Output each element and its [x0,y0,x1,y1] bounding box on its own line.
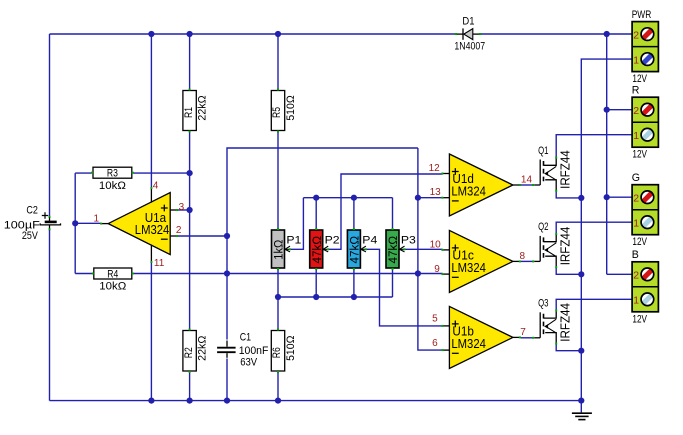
wire pin4 supply column [150,34,152,189]
svg-text:12V: 12V [632,313,647,325]
wire U1d out to Q1 gate [521,184,534,186]
svg-text:IRFZ44: IRFZ44 [558,303,572,342]
node R4 row C1 [224,270,230,276]
pin 14 U1d [521,174,533,185]
wire P2 top [315,198,317,229]
svg-text:1: 1 [94,214,100,225]
svg-text:47kΩ: 47kΩ [386,236,400,264]
node bottom rail R6 [275,398,281,404]
wire R2 bottom [189,372,191,401]
svg-text:PWR: PWR [632,9,652,21]
svg-text:10: 10 [430,239,442,250]
wire G pin2 [607,196,632,198]
svg-text:12: 12 [429,163,441,174]
pin 1 U1a [94,214,100,225]
wire P4 bottom [353,270,355,298]
wire inverting net riser [227,148,418,236]
node R4 row inverting column [415,270,421,276]
svg-text:11: 11 [154,258,165,269]
svg-text:510Ω: 510Ω [285,336,297,361]
wire P4 top [353,198,355,229]
svg-text:R4: R4 [107,268,118,280]
pin 4 U1a [153,181,159,192]
wire Q3 drain to B pin1 [556,299,632,310]
wire R5 column top [277,34,279,90]
wire R1-R2 column [189,131,191,330]
potentiometer P4 [347,228,377,270]
terminal B 2 [633,268,653,282]
wire B pin2 [607,273,632,275]
wire reference row [303,197,392,199]
node 12V column R pin2 [604,107,610,113]
svg-text:1: 1 [633,218,639,230]
wire Q1 source to ground [556,191,581,198]
svg-text:10kΩ: 10kΩ [99,180,126,192]
svg-text:12V: 12V [632,73,647,85]
connector R [632,84,659,160]
svg-text:14: 14 [521,174,533,185]
wire R5 to P1 [277,131,279,229]
node 12V column G pin2 [604,194,610,200]
node bottom rail ground column [578,398,584,404]
wire left supply column through C2 [49,34,51,401]
capacitor C2 [4,205,61,243]
terminal B 1 [633,293,653,307]
terminal G 2 [633,191,653,205]
wire U1b out to Q3 gate [521,337,534,339]
node bottom rail C1 [224,398,230,404]
svg-text:2: 2 [633,105,639,117]
svg-text:10kΩ: 10kΩ [99,281,126,293]
svg-text:63V: 63V [240,356,258,368]
pin 6 U1b [432,338,438,349]
wire Q2 source to ground [556,267,581,274]
pin 10 U1c [430,239,442,250]
svg-text:5: 5 [432,314,438,325]
svg-text:12V: 12V [632,236,647,248]
svg-text:D1: D1 [462,15,474,27]
node pin3-R1 [187,207,193,213]
svg-text:P4: P4 [362,235,377,247]
connector G [632,172,659,248]
transistor Q1 [532,145,572,192]
node pot rail P1 [275,294,281,300]
svg-text:2: 2 [633,30,639,42]
resistor R3 [91,167,134,192]
svg-text:G: G [632,172,640,184]
pin 7 U1b [520,327,526,338]
transistor Q2 [532,221,572,268]
svg-text:12V: 12V [632,149,647,161]
op-amp U1c [441,230,521,292]
transistor Q3 [532,298,572,345]
svg-text:P3: P3 [401,235,416,247]
wire P3 wiper to pin10 [405,248,443,250]
svg-text:P2: P2 [325,235,340,247]
wire inverting net column [418,148,443,350]
node R3-R1 column [187,170,193,176]
terminal R 2 [633,103,653,117]
node reference P4 top [351,195,357,201]
terminal PWR 2 [633,28,653,42]
svg-text:22kΩ: 22kΩ [197,336,209,361]
wire Q1 drain to R pin1 [556,135,632,158]
svg-text:2: 2 [633,193,639,205]
terminal R 1 [633,128,653,142]
node reference P2 top [313,195,319,201]
svg-text:8: 8 [520,251,526,262]
wire pin2 row [178,235,228,237]
svg-text:7: 7 [520,327,526,338]
svg-text:Q3: Q3 [538,298,548,310]
wire C1 to ground [226,359,228,401]
svg-text:Q2: Q2 [538,221,548,233]
svg-text:22kΩ: 22kΩ [197,95,209,120]
node pin1 feedback [72,220,78,226]
svg-text:100nF: 100nF [239,345,269,357]
connector B [632,249,659,325]
ground [572,401,592,420]
svg-text:1: 1 [633,295,639,307]
svg-text:4: 4 [153,181,159,192]
pin 2 U1a [176,225,182,236]
wire R pin2 [607,109,632,111]
wire R6 bottom [277,372,279,401]
node top rail R5 [275,31,281,37]
node ground Q3 source [578,348,584,354]
svg-text:1: 1 [633,130,639,142]
svg-text:2: 2 [633,270,639,282]
svg-text:Q1: Q1 [538,145,548,157]
op-amp U1d [441,154,521,216]
node top rail 12V column [604,31,610,37]
svg-text:C1: C1 [240,332,251,344]
svg-text:9: 9 [434,264,440,275]
wire R3 row left [75,172,91,174]
wire P4 wiper to pin5 [366,249,442,326]
svg-text:LM324: LM324 [451,185,486,199]
svg-text:25V: 25V [22,230,39,242]
resistor R6 [271,329,297,374]
wire +12V top rail left of D1 [50,33,457,35]
svg-text:13: 13 [430,187,442,198]
svg-text:IRFZ44: IRFZ44 [558,150,572,189]
wire pin11 ground column [150,262,152,401]
wire R4 row left [75,273,92,275]
pin 8 U1c [520,251,526,262]
wire P2 wiper to pin12 [329,174,443,249]
connector PWR [632,9,659,85]
wire P3 top [392,198,394,229]
pin 9 U1c [434,264,440,275]
node pot rail P4 [351,294,357,300]
svg-text:510Ω: 510Ω [285,95,297,120]
svg-text:1N4007: 1N4007 [454,40,485,52]
wire Q2 drain to G pin1 [556,222,632,234]
capacitor C1 [217,332,269,369]
node top rail pin4 [148,31,154,37]
wire Q3 source to ground [556,343,581,350]
svg-text:LM324: LM324 [451,261,486,275]
wire pin3 row [178,209,190,211]
svg-text:B: B [632,249,639,261]
node top rail R1 [187,31,193,37]
wire U1c out to Q2 gate [521,260,534,262]
pin 11 U1a [154,258,165,269]
svg-text:LM324: LM324 [451,337,486,351]
pin 5 U1b [432,314,438,325]
node pin2 junction [224,233,230,239]
wire pin1 output [75,222,101,224]
wire pin13 row [418,197,443,199]
svg-text:R2: R2 [183,347,195,358]
op-amp U1a [100,187,178,263]
resistor R4 [92,268,134,293]
resistor R2 [183,329,209,374]
svg-text:47kΩ: 47kΩ [310,236,324,264]
wire R4 row right to pin9 [133,273,442,275]
terminal G 1 [633,216,653,230]
wire R3 row right [133,172,189,174]
wire feedback column R3-R4 [74,173,76,273]
resistor R1 [183,89,209,133]
svg-text:47kΩ: 47kΩ [348,236,362,264]
terminal PWR 1 [633,53,653,67]
potentiometer P3 [386,228,416,270]
svg-text:C2: C2 [26,205,38,217]
svg-text:R6: R6 [271,347,283,358]
node bottom rail R2 [187,398,193,404]
op-amp U1b [441,306,521,368]
wire ground bottom rail [50,400,582,402]
svg-text:R3: R3 [107,168,118,180]
wire R1 column top [189,34,191,90]
wire +12V top rail right of D1 [479,33,632,35]
resistor R5 [271,89,297,133]
pin 13 U1d [430,187,442,198]
svg-text:1kΩ: 1kΩ [272,240,286,260]
svg-text:1: 1 [633,55,639,67]
svg-text:2: 2 [176,225,182,236]
svg-text:3: 3 [179,202,185,213]
wire pot bottom rail [278,296,393,298]
svg-text:R: R [632,84,640,96]
diode D1 [454,15,485,52]
svg-text:P1: P1 [286,235,301,247]
pin 3 U1a [179,202,185,213]
wire P2 bottom [315,270,317,298]
svg-text:LM324: LM324 [135,223,170,237]
node pot rail P2 [313,294,319,300]
svg-text:IRFZ44: IRFZ44 [558,227,572,266]
wire P1 to R6 [277,270,279,330]
pin 12 U1d [429,163,441,174]
node ground Q1 source [578,195,584,201]
svg-text:R1: R1 [183,107,195,118]
node ground Q2 source [578,271,584,277]
wire pin2 net to C1 [226,236,228,340]
potentiometer P2 [310,228,340,270]
wire P1 wiper to reference [291,198,304,250]
node pin13 junction [415,195,421,201]
node bottom rail pin11 [148,398,154,404]
potentiometer P1 [272,228,302,270]
svg-text:R5: R5 [271,107,283,118]
svg-text:6: 6 [432,338,438,349]
wire P3 bottom [392,270,394,298]
wire +12V distribution column [606,34,608,274]
wire PWR pin1 to ground column [581,59,632,401]
